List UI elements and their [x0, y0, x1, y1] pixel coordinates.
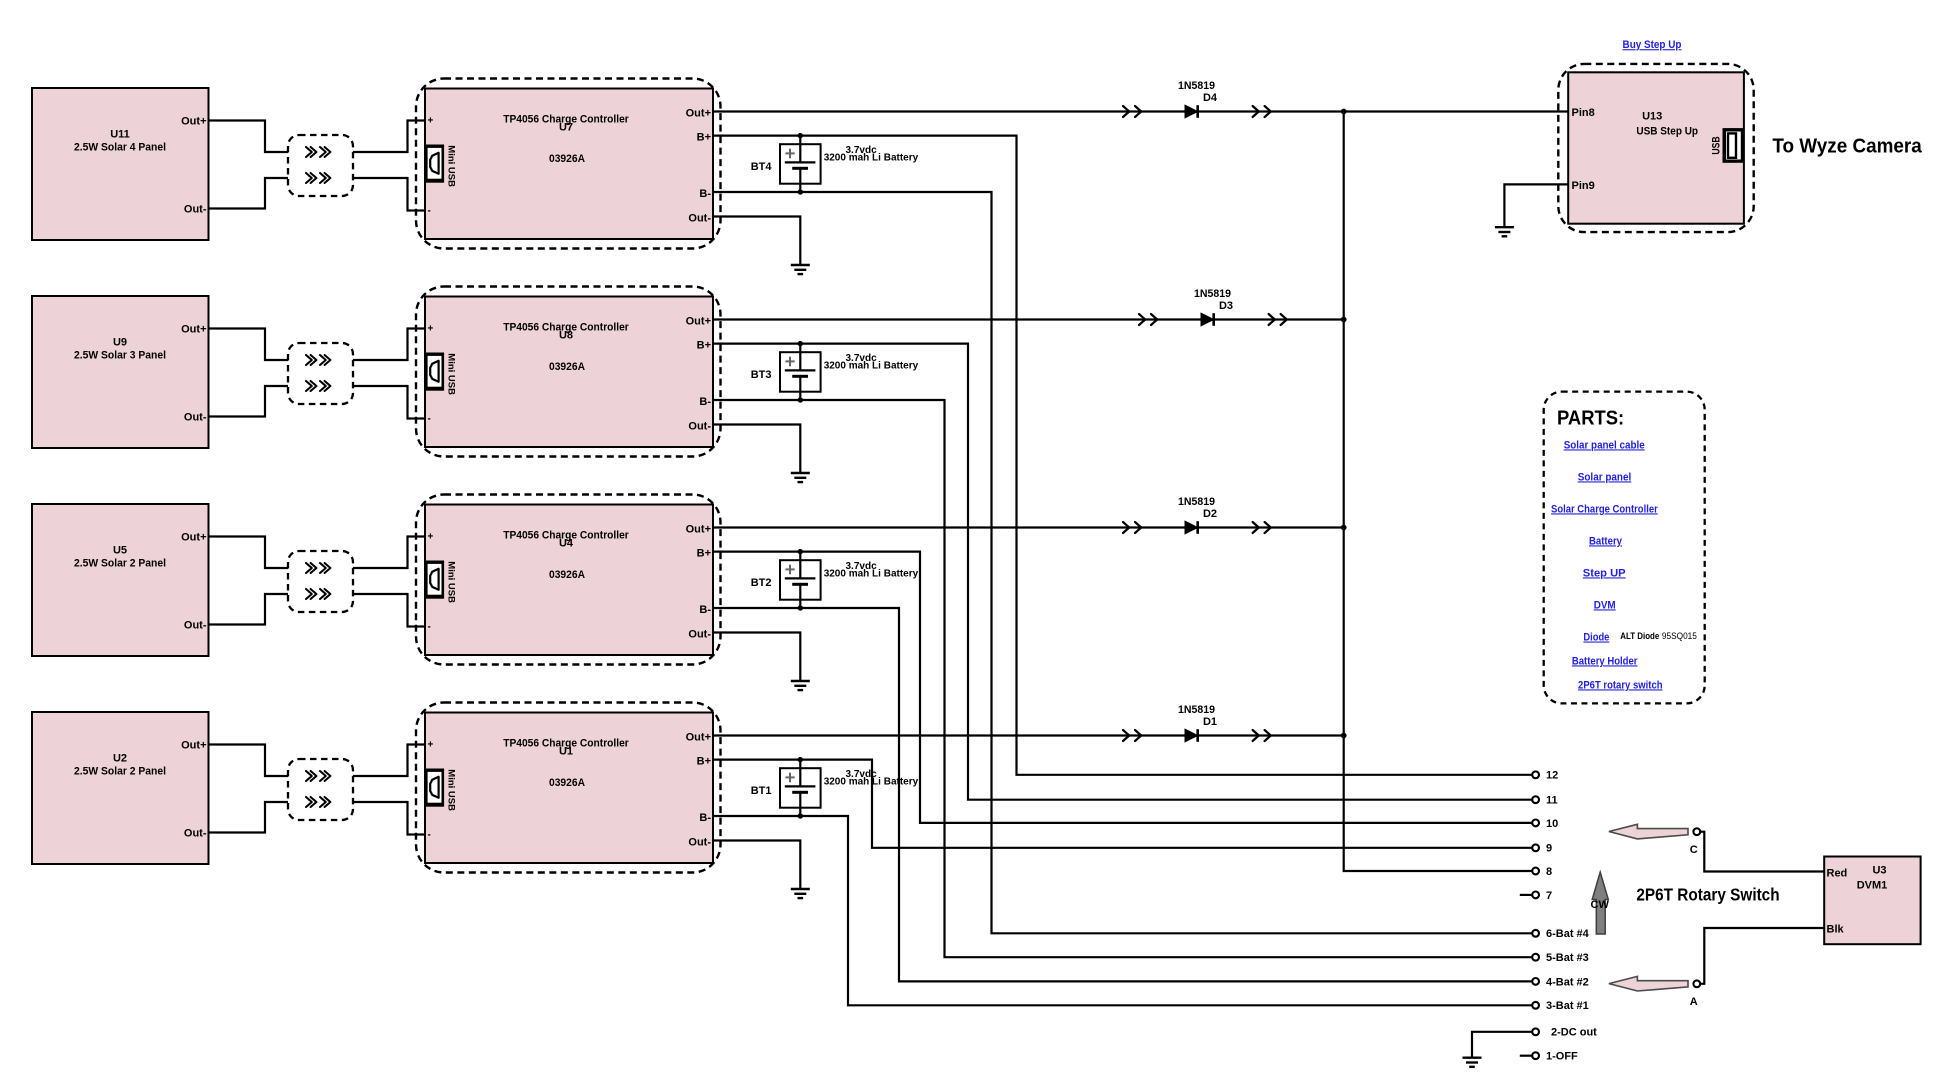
svg-text:-: - [428, 830, 431, 841]
wire U1 Out+ through diode D1 to common bus [713, 734, 1344, 736]
DVM module U3 DVM1 [1824, 857, 1920, 945]
svg-text:1N5819: 1N5819 [1178, 80, 1215, 92]
wire cable connector to U1 - input [353, 802, 425, 835]
junction node diode D3 output to bus [1341, 317, 1347, 323]
battery BT4 3.7vdc 3200 mah [751, 136, 919, 192]
rotary switch pole C contact [1690, 828, 1700, 856]
svg-text:U4: U4 [559, 537, 574, 549]
wire U7 B+ to rotary switch terminal [713, 136, 1532, 775]
svg-text:03926A: 03926A [549, 361, 585, 373]
svg-text:Red: Red [1827, 867, 1848, 879]
Mini USB connector icon on U7 [424, 145, 456, 188]
svg-text:Pin8: Pin8 [1572, 107, 1595, 119]
svg-text:D3: D3 [1219, 300, 1233, 312]
wire U1 B- to rotary switch terminal [713, 816, 1532, 1005]
svg-text:Mini USB: Mini USB [446, 145, 457, 187]
svg-text:2.5W Solar 2 Panel: 2.5W Solar 2 Panel [74, 557, 166, 569]
svg-text:Out+: Out+ [686, 316, 711, 328]
svg-text:B+: B+ [697, 548, 711, 560]
rotary switch pole A arrow [1609, 976, 1688, 991]
svg-text:Out-: Out- [688, 837, 711, 849]
svg-text:BT4: BT4 [751, 161, 773, 173]
svg-text:BT3: BT3 [751, 369, 772, 381]
solar cable connector (dashed) row U8 [288, 343, 353, 404]
wire U7 B- to rotary switch terminal [713, 192, 1532, 933]
svg-text:B+: B+ [697, 132, 711, 144]
svg-text:USB: USB [1711, 136, 1723, 154]
svg-text:DVM: DVM [1594, 599, 1616, 611]
svg-text:+: + [428, 532, 434, 543]
solar panel U2 [32, 712, 209, 864]
rotary switch terminal 10 [1532, 818, 1558, 830]
svg-text:Battery: Battery [1589, 535, 1623, 547]
PARTS list box (dashed) [1544, 392, 1705, 704]
wire cable connector to U1 + input [353, 745, 425, 777]
wire panel U5 Out- to cable connector [209, 594, 289, 625]
wire Pin9 to ground [1504, 184, 1568, 227]
wire U4 B- to rotary switch terminal [713, 608, 1532, 981]
rotary switch pole C arrow [1609, 824, 1688, 839]
svg-text:7: 7 [1546, 890, 1552, 902]
battery BT2 3.7vdc 3200 mah [751, 552, 919, 608]
svg-text:U8: U8 [559, 329, 573, 341]
svg-text:BT2: BT2 [751, 577, 772, 589]
USB connector icon on U13 [1711, 128, 1745, 163]
svg-text:Out+: Out+ [181, 323, 206, 335]
svg-text:C: C [1690, 844, 1698, 856]
svg-text:Out-: Out- [688, 629, 711, 641]
wire panel U5 Out+ to cable connector [209, 537, 289, 569]
wire pole C to DVM Red [1700, 832, 1824, 872]
svg-text:D4: D4 [1203, 92, 1218, 104]
svg-text:CW: CW [1591, 899, 1610, 911]
wire U8 B- to rotary switch terminal [713, 400, 1532, 957]
svg-text:3-Bat #1: 3-Bat #1 [1546, 1000, 1589, 1012]
svg-text:9: 9 [1546, 843, 1552, 855]
diode D4 1N5819 [1178, 80, 1218, 118]
svg-text:3200 mah Li Battery: 3200 mah Li Battery [824, 569, 919, 580]
junction node BT2 - on B- wire [798, 605, 803, 610]
svg-text:+: + [428, 324, 434, 335]
wire panel U11 Out- to cable connector [209, 178, 289, 209]
svg-text:3200 mah Li Battery: 3200 mah Li Battery [824, 361, 919, 372]
svg-text:Out-: Out- [184, 619, 207, 631]
svg-text:A: A [1690, 996, 1698, 1008]
wire U1 Out- to ground [713, 841, 800, 890]
wire U7 Out- to ground [713, 217, 800, 266]
svg-text:2P6T rotary switch: 2P6T rotary switch [1578, 679, 1663, 691]
junction node BT1 + on B+ wire [798, 757, 803, 762]
svg-text:Out+: Out+ [686, 524, 711, 536]
junction node BT4 + on B+ wire [798, 133, 803, 138]
svg-text:Out+: Out+ [181, 115, 206, 127]
junction node BT3 - on B- wire [798, 397, 803, 402]
svg-text:3200 mah Li Battery: 3200 mah Li Battery [824, 153, 919, 164]
svg-text:BT1: BT1 [751, 785, 772, 797]
svg-text:1-OFF: 1-OFF [1546, 1051, 1578, 1063]
svg-text:B-: B- [699, 396, 711, 408]
svg-text:U5: U5 [113, 544, 127, 556]
rotary switch terminal 8 [1532, 866, 1552, 878]
battery BT1 3.7vdc 3200 mah [751, 760, 919, 816]
stub wire terminal 7 [1520, 894, 1532, 896]
junction node diode D2 output to bus [1341, 525, 1347, 531]
svg-text:B-: B- [699, 812, 711, 824]
solar cable connector (dashed) row U4 [288, 551, 353, 612]
junction node BT3 + on B+ wire [798, 341, 803, 346]
junction node BT4 - on B- wire [798, 189, 803, 194]
svg-text:D2: D2 [1203, 508, 1217, 520]
svg-text:ALT Diode: ALT Diode [1620, 631, 1659, 641]
svg-text:Out-: Out- [184, 203, 207, 215]
wire U8 B+ to rotary switch terminal [713, 344, 1532, 800]
wire panel U9 Out- to cable connector [209, 386, 289, 417]
svg-text:4-Bat #2: 4-Bat #2 [1546, 976, 1589, 988]
svg-text:USB Step Up: USB Step Up [1636, 125, 1698, 137]
Mini USB connector icon on U1 [424, 769, 456, 812]
svg-text:2.5W Solar 4 Panel: 2.5W Solar 4 Panel [74, 141, 166, 153]
svg-text:2-DC out: 2-DC out [1551, 1027, 1597, 1039]
diode D2 1N5819 [1178, 496, 1217, 534]
rotary switch terminal 1-OFF [1532, 1051, 1578, 1063]
Mini USB connector icon on U8 [424, 353, 456, 396]
svg-text:3200 mah Li Battery: 3200 mah Li Battery [824, 777, 919, 788]
solar cable connector (dashed) row U1 [288, 759, 353, 820]
wire U8 Out+ through diode D3 to common bus [713, 318, 1344, 320]
wire U1 B+ to rotary switch terminal [713, 760, 1532, 848]
TP4056 charge controller U4 [416, 495, 721, 665]
svg-text:1N5819: 1N5819 [1178, 496, 1215, 508]
svg-text:U9: U9 [113, 336, 127, 348]
svg-text:5-Bat #3: 5-Bat #3 [1546, 952, 1589, 964]
rotary switch terminal 12 [1532, 770, 1558, 782]
svg-text:U11: U11 [110, 128, 130, 140]
ground symbol row U1 [791, 889, 810, 898]
svg-text:03926A: 03926A [549, 153, 585, 165]
svg-text:1N5819: 1N5819 [1178, 704, 1215, 716]
ground symbol at 2-DC out [1463, 1058, 1482, 1067]
svg-text:U1: U1 [559, 745, 573, 757]
USB step up module U13 [1558, 64, 1753, 232]
wire U4 Out+ through diode D2 to common bus [713, 526, 1344, 528]
svg-text:10: 10 [1546, 818, 1558, 830]
svg-text:03926A: 03926A [549, 777, 585, 789]
wire U4 B+ to rotary switch terminal [713, 552, 1532, 823]
svg-text:+: + [428, 116, 434, 127]
diode D3 1N5819 [1194, 288, 1233, 326]
rotary switch terminal 11 [1532, 795, 1557, 807]
wire U4 Out- to ground [713, 633, 800, 682]
TP4056 charge controller U8 [416, 287, 721, 457]
svg-text:B-: B- [699, 604, 711, 616]
stub wire terminal 1-OFF [1520, 1055, 1532, 1057]
wire cable connector to U8 + input [353, 329, 425, 361]
svg-text:2.5W Solar 2 Panel: 2.5W Solar 2 Panel [74, 765, 166, 777]
svg-text:Mini USB: Mini USB [446, 561, 457, 603]
svg-text:-: - [428, 206, 431, 217]
svg-text:Mini USB: Mini USB [446, 353, 457, 395]
solar cable connector (dashed) row U7 [288, 135, 353, 196]
wire panel U2 Out- to cable connector [209, 802, 289, 833]
svg-text:Mini USB: Mini USB [446, 769, 457, 811]
wire common diode output bus to terminal 8 [1344, 112, 1532, 872]
svg-text:2P6T Rotary Switch: 2P6T Rotary Switch [1636, 885, 1779, 905]
svg-text:Out+: Out+ [181, 531, 206, 543]
svg-text:DVM1: DVM1 [1857, 880, 1888, 892]
svg-text:Buy Step Up: Buy Step Up [1623, 39, 1682, 51]
CW rotation arrow [1592, 872, 1608, 934]
svg-text:1N5819: 1N5819 [1194, 288, 1231, 300]
svg-text:B-: B- [699, 188, 711, 200]
junction node BT2 + on B+ wire [798, 549, 803, 554]
wire panel U2 Out+ to cable connector [209, 745, 289, 777]
svg-text:PARTS:: PARTS: [1557, 407, 1624, 430]
diode D1 1N5819 [1178, 704, 1217, 742]
rotary switch terminal 2-DC out [1532, 1027, 1597, 1039]
junction node BT1 - on B- wire [798, 813, 803, 818]
svg-text:Out-: Out- [688, 213, 711, 225]
svg-text:12: 12 [1546, 770, 1558, 782]
svg-text:-: - [428, 622, 431, 633]
rotary switch pole A contact [1690, 980, 1700, 1008]
rotary switch terminal 3-Bat #1 [1532, 1000, 1589, 1012]
svg-text:2.5W Solar 3 Panel: 2.5W Solar 3 Panel [74, 349, 166, 361]
wire cable connector to U4 - input [353, 594, 425, 627]
ground symbol row U8 [791, 473, 810, 482]
svg-text:-: - [428, 414, 431, 425]
ground symbol row U7 [791, 265, 810, 274]
Mini USB connector icon on U4 [424, 561, 456, 604]
svg-text:D1: D1 [1203, 716, 1217, 728]
svg-text:6-Bat #4: 6-Bat #4 [1546, 928, 1590, 940]
svg-text:03926A: 03926A [549, 569, 585, 581]
svg-text:Out+: Out+ [181, 739, 206, 751]
TP4056 charge controller U7 [416, 79, 721, 249]
wire pole A to DVM Blk [1700, 928, 1824, 984]
ground symbol at Pin9 [1495, 227, 1514, 236]
wire cable connector to U7 + input [353, 121, 425, 153]
svg-text:95SQ015: 95SQ015 [1662, 631, 1697, 641]
svg-text:U2: U2 [113, 752, 127, 764]
svg-text:B+: B+ [697, 340, 711, 352]
svg-text:Solar panel: Solar panel [1578, 471, 1632, 483]
rotary switch terminal 9 [1532, 843, 1552, 855]
ground symbol row U4 [791, 681, 810, 690]
wire terminal 2-DC out to ground [1472, 1032, 1532, 1057]
svg-text:Pin9: Pin9 [1572, 180, 1595, 192]
wire U8 Out- to ground [713, 425, 800, 474]
svg-text:Diode: Diode [1583, 632, 1609, 644]
rotary switch terminal 4-Bat #2 [1532, 976, 1589, 988]
solar panel U11 [32, 88, 209, 240]
svg-text:Battery Holder: Battery Holder [1572, 655, 1638, 667]
rotary switch terminal 7 [1532, 890, 1552, 902]
rotary switch terminal 5-Bat #3 [1532, 952, 1589, 964]
svg-text:U3: U3 [1872, 865, 1886, 877]
wire cable connector to U7 - input [353, 178, 425, 211]
wire cable connector to U4 + input [353, 537, 425, 569]
svg-text:Blk: Blk [1827, 923, 1845, 935]
TP4056 charge controller U1 [416, 703, 721, 873]
svg-text:Out+: Out+ [686, 732, 711, 744]
junction node diode D1 output to bus [1341, 733, 1347, 739]
svg-text:To Wyze Camera: To Wyze Camera [1772, 135, 1922, 158]
svg-text:+: + [428, 740, 434, 751]
svg-text:Step UP: Step UP [1583, 567, 1626, 579]
svg-text:11: 11 [1546, 795, 1558, 807]
junction node diode D4 output to bus [1341, 109, 1347, 115]
rotary switch terminal 6-Bat #4 [1532, 928, 1589, 940]
wire panel U11 Out+ to cable connector [209, 121, 289, 153]
solar panel U5 [32, 504, 209, 656]
wire panel U9 Out+ to cable connector [209, 329, 289, 361]
wire cable connector to U8 - input [353, 386, 425, 419]
svg-text:Out-: Out- [184, 411, 207, 423]
svg-text:8: 8 [1546, 866, 1552, 878]
solar panel U9 [32, 296, 209, 448]
svg-text:U7: U7 [559, 121, 573, 133]
svg-text:Out+: Out+ [686, 108, 711, 120]
svg-text:U13: U13 [1642, 111, 1662, 123]
svg-text:Out-: Out- [688, 421, 711, 433]
svg-text:B+: B+ [697, 756, 711, 768]
svg-text:Solar panel cable: Solar panel cable [1564, 439, 1645, 451]
svg-text:Solar Charge Controller: Solar Charge Controller [1551, 503, 1658, 515]
svg-text:Out-: Out- [184, 827, 207, 839]
battery BT3 3.7vdc 3200 mah [751, 344, 919, 400]
wire U7 Out+ through diode D4 to common bus [713, 110, 1568, 112]
